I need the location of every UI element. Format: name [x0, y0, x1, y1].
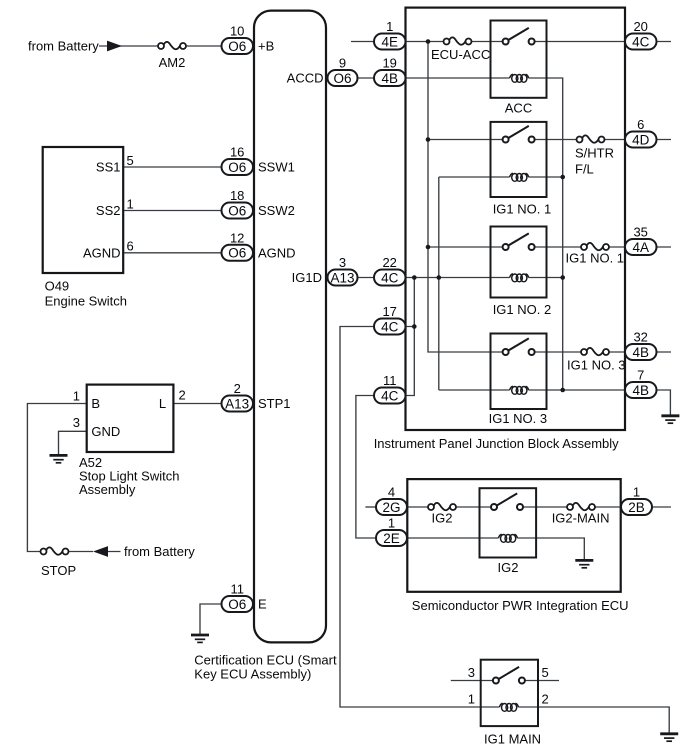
relay IG2 coil: [499, 534, 518, 542]
svg-text:1: 1: [633, 485, 640, 500]
wire ECU-ACC feed vertical to IG1 relay switches: [428, 42, 506, 353]
svg-text:STOP: STOP: [41, 563, 76, 578]
wire AGND: [123, 252, 221, 254]
label S/HTR F/L: [575, 146, 614, 177]
svg-text:3: 3: [339, 255, 346, 270]
svg-text:O49: O49: [45, 279, 70, 294]
wire STP1: [173, 403, 221, 405]
connector 4C pin 17: [374, 304, 406, 335]
wire IG1 NO.2 relay coil to common ground vertical: [529, 277, 563, 279]
svg-text:3: 3: [468, 665, 475, 680]
connector O6 pin 10 (+B): [222, 24, 254, 55]
svg-text:2G: 2G: [382, 500, 400, 515]
svg-text:O6: O6: [228, 246, 246, 261]
svg-text:4C: 4C: [632, 34, 650, 49]
connector O6 pin 11 (E): [222, 582, 254, 613]
fuse S/HTR F/L: [577, 135, 605, 142]
svg-text:from Battery: from Battery: [124, 544, 195, 559]
svg-text:Key ECU Assembly): Key ECU Assembly): [194, 667, 311, 682]
junction dots: [412, 39, 565, 392]
svg-text:IG2: IG2: [498, 560, 519, 575]
svg-text:B: B: [91, 396, 100, 411]
wire stop light switch GND to ground: [59, 431, 87, 455]
fuse IG1 NO.3: [581, 348, 609, 355]
svg-text:O6: O6: [228, 203, 246, 218]
svg-text:1: 1: [468, 692, 475, 707]
connector 2E pin 1: [376, 516, 407, 547]
wire ACC relay coil to common ground vertical: [529, 78, 563, 390]
stop light switch pin numbers 1 3 2: [73, 388, 186, 431]
svg-text:F/L: F/L: [575, 162, 594, 177]
connector 4A pin 35: [625, 225, 657, 256]
wire IG2 relay coil to ground: [517, 538, 584, 560]
connector 4E pin 1: [374, 19, 406, 50]
fuse ECU-ACC: [444, 37, 472, 44]
svg-text:SS2: SS2: [96, 203, 121, 218]
wire IG1 NO.3 relay coil to 4B pin 7 to ground: [439, 390, 671, 416]
wire 4C pin 22 to pins 17 and 11 vertical: [406, 278, 415, 396]
connector O6 pin 9 (ACCD): [328, 56, 358, 87]
wire IG1 NO.1 relay switch to S/HTR fuse to 4D pin 6: [532, 139, 671, 141]
fuse IG2: [428, 503, 456, 510]
ground IG2 coil: [575, 560, 593, 567]
wire 2G to IG2 fuse to IG2 relay switch: [407, 506, 494, 508]
wire 4E to ECU-ACC fuse to ACC relay switch: [406, 41, 506, 43]
relay IG2 box: [480, 488, 537, 557]
connector 4B pin 7: [625, 368, 657, 399]
svg-text:A13: A13: [225, 396, 249, 411]
svg-text:IG1 MAIN: IG1 MAIN: [484, 732, 541, 747]
svg-text:SSW2: SSW2: [258, 203, 295, 218]
svg-text:O6: O6: [228, 160, 246, 175]
connector O6 pin 12 (AGND): [222, 230, 254, 260]
wire 2E to IG2 relay coil: [407, 537, 499, 539]
relay IG1 NO.1 switch: [503, 126, 535, 143]
wire from Battery to +B fuse AM2: [99, 45, 222, 47]
wire SSW2: [123, 210, 221, 212]
relay IG2 switch: [491, 493, 523, 510]
svg-text:4A: 4A: [632, 240, 649, 255]
relay IG1 NO.2 switch: [503, 233, 535, 250]
relay IG1 NO.3 switch: [503, 338, 535, 355]
svg-text:AGND: AGND: [258, 246, 296, 261]
arrow from Battery (right-pointing): [107, 41, 122, 52]
stop light switch box A52: [87, 385, 174, 452]
wire IG1 NO.2 relay switch feed: [428, 246, 506, 248]
svg-text:AGND: AGND: [83, 245, 121, 260]
IG1 MAIN pin numbers 3 5 1 2: [468, 665, 549, 707]
svg-text:6: 6: [637, 117, 644, 132]
ground E pin: [191, 635, 209, 642]
wire IG1 coil feed vertical: [438, 177, 440, 390]
svg-text:1: 1: [386, 19, 393, 34]
svg-text:17: 17: [382, 304, 396, 319]
svg-text:IG1D: IG1D: [292, 270, 322, 285]
wire SSW1: [123, 166, 221, 168]
wire ACC relay switch to 4C pin 20: [532, 41, 671, 43]
svg-text:O6: O6: [228, 39, 246, 54]
svg-text:IG1 NO. 1: IG1 NO. 1: [566, 251, 625, 266]
connector 4C pin 11: [374, 373, 406, 404]
svg-text:Certification ECU (Smart: Certification ECU (Smart: [194, 653, 337, 668]
svg-text:O6: O6: [333, 71, 351, 86]
wire 4C pin 17 to IG1 MAIN relay coil: [340, 327, 500, 708]
relay ACC box: [491, 21, 547, 98]
fuse STOP: [41, 547, 69, 554]
svg-text:16: 16: [230, 145, 244, 160]
relay IG1 MAIN switch: [493, 667, 525, 684]
relay IG1 NO.3 coil: [510, 386, 529, 394]
svg-text:3: 3: [73, 415, 80, 430]
svg-text:2: 2: [234, 381, 241, 396]
svg-text:Assembly: Assembly: [79, 482, 136, 497]
wire stop light switch B to STOP fuse: [27, 404, 120, 552]
svg-text:4E: 4E: [381, 34, 398, 49]
svg-text:4C: 4C: [381, 319, 399, 334]
svg-text:AM2: AM2: [159, 55, 186, 70]
svg-text:20: 20: [633, 19, 647, 34]
fuse IG2-MAIN: [567, 503, 595, 510]
svg-text:4C: 4C: [381, 270, 399, 285]
svg-text:2: 2: [542, 692, 549, 707]
label Certification ECU: [194, 653, 337, 682]
svg-text:11: 11: [230, 582, 244, 597]
svg-text:Engine Switch: Engine Switch: [45, 294, 127, 309]
svg-text:from Battery: from Battery: [28, 39, 99, 54]
wire IG1 MAIN relay switch stubs: [451, 680, 559, 682]
svg-text:4B: 4B: [632, 383, 649, 398]
connector A13 pin 3 (IG1D): [328, 255, 358, 286]
svg-text:4B: 4B: [632, 345, 649, 360]
svg-text:ECU-ACC: ECU-ACC: [431, 47, 490, 62]
connector O6 pin 16 (SSW1): [222, 145, 254, 176]
fuse AM2: [158, 42, 186, 49]
svg-text:12: 12: [230, 230, 244, 245]
svg-text:GND: GND: [91, 424, 120, 439]
svg-text:7: 7: [637, 368, 644, 383]
relay IG1 NO.1 coil: [510, 173, 529, 181]
connector 2B pin 1: [621, 485, 652, 516]
svg-text:SS1: SS1: [96, 160, 121, 175]
svg-text:L: L: [159, 396, 166, 411]
wire IG1 MAIN relay coil to ground: [518, 707, 669, 734]
connector 4C pin 20: [625, 19, 657, 50]
instrument panel junction block box: [406, 8, 626, 430]
svg-text:E: E: [258, 597, 267, 612]
relay IG1 MAIN coil: [500, 703, 519, 711]
wire IG1D row A13 to 4C to IG1 NO.2 relay coil: [358, 277, 510, 279]
wire IG1 NO.1 relay switch feed: [428, 139, 506, 141]
svg-text:9: 9: [339, 56, 346, 71]
certification ECU box: [254, 11, 326, 643]
relay ACC coil: [510, 74, 529, 82]
relay IG1 NO.3 box: [491, 334, 547, 410]
svg-text:IG1 NO. 3: IG1 NO. 3: [489, 411, 548, 426]
svg-text:2: 2: [179, 388, 186, 403]
svg-text:19: 19: [382, 56, 396, 71]
ground 4B pin 7: [661, 416, 679, 423]
svg-text:32: 32: [633, 330, 647, 345]
ground IG1 MAIN coil: [660, 734, 678, 741]
svg-text:1: 1: [73, 389, 80, 404]
svg-text:4: 4: [388, 485, 395, 500]
wire IG1 NO.3 relay switch to IG1 NO.3 fuse to 4B pin 32: [532, 351, 671, 353]
relay IG1 NO.2 box: [491, 227, 547, 298]
engine switch pin labels SS1 SS2 AGND: [83, 160, 121, 261]
svg-text:4D: 4D: [632, 132, 650, 147]
svg-text:IG1 NO. 2: IG1 NO. 2: [493, 302, 552, 317]
connector O6 pin 18 (SSW2): [222, 188, 254, 219]
arrow from Battery (left-pointing, STOP row): [93, 546, 108, 557]
svg-text:Instrument Panel Junction Bloc: Instrument Panel Junction Block Assembly: [374, 436, 619, 451]
connector 4B pin 19: [374, 56, 406, 87]
svg-text:2E: 2E: [383, 531, 400, 546]
svg-text:STP1: STP1: [258, 396, 291, 411]
connector 4C pin 22: [374, 255, 406, 286]
connector 2G pin 4: [376, 485, 407, 516]
ground stop light switch: [50, 455, 68, 462]
svg-text:11: 11: [383, 373, 397, 388]
relay IG1 NO.2 coil: [510, 274, 529, 282]
wire ACCD row O6 to 4B to ACC relay coil: [328, 77, 510, 79]
wire 2G stub: [365, 506, 376, 508]
stop light switch pin labels B L GND: [91, 396, 166, 439]
svg-text:IG2-MAIN: IG2-MAIN: [552, 511, 610, 526]
svg-text:O6: O6: [228, 597, 246, 612]
label A52 Stop Light Switch Assembly: [79, 455, 179, 497]
svg-text:4C: 4C: [381, 388, 399, 403]
svg-text:4B: 4B: [381, 71, 398, 86]
svg-text:5: 5: [127, 153, 134, 168]
svg-text:IG2: IG2: [432, 511, 453, 526]
svg-text:2B: 2B: [628, 500, 645, 515]
svg-text:ACCD: ACCD: [287, 71, 324, 86]
label O49 Engine Switch: [45, 279, 127, 309]
svg-text:IG1 NO. 1: IG1 NO. 1: [493, 202, 552, 217]
connector 4D pin 6: [625, 117, 657, 148]
wire IG1 NO.2 relay switch to IG1 NO.1 fuse to 4A pin 35: [532, 246, 671, 248]
wire IG2 relay switch to IG2-MAIN fuse to 2B: [521, 506, 671, 508]
svg-text:5: 5: [542, 665, 549, 680]
engine switch box O49: [43, 147, 124, 273]
relay IG1 NO.1 box: [491, 122, 547, 197]
wire 4C pin 11 to 2E: [356, 396, 376, 539]
semiconductor PWR integration ECU box: [407, 479, 620, 592]
relay ACC switch: [503, 28, 535, 45]
svg-text:SSW1: SSW1: [258, 160, 295, 175]
svg-text:18: 18: [230, 188, 244, 203]
svg-text:10: 10: [230, 24, 244, 39]
connector 4B pin 32: [625, 330, 657, 361]
svg-text:1: 1: [388, 516, 395, 531]
svg-text:35: 35: [633, 225, 647, 240]
connector A13 pin 2 (STP1): [222, 381, 254, 412]
wire 4E stub: [351, 41, 374, 43]
wire E pin to ground: [200, 604, 222, 635]
engine switch pin numbers 5 1 6: [127, 153, 134, 254]
svg-text:IG1 NO. 3: IG1 NO. 3: [567, 358, 626, 373]
svg-text:22: 22: [382, 255, 396, 270]
wire IG1 NO.1 relay coil: [439, 176, 563, 178]
svg-text:+B: +B: [258, 39, 274, 54]
svg-text:S/HTR: S/HTR: [575, 146, 614, 161]
svg-text:1: 1: [127, 197, 134, 212]
svg-text:Semiconductor PWR Integration: Semiconductor PWR Integration ECU: [412, 598, 629, 613]
svg-text:ACC: ACC: [505, 101, 532, 116]
fuse IG1 NO.1: [581, 243, 609, 250]
svg-text:6: 6: [127, 239, 134, 254]
svg-text:A13: A13: [330, 270, 354, 285]
relay IG1 MAIN box: [481, 660, 538, 726]
